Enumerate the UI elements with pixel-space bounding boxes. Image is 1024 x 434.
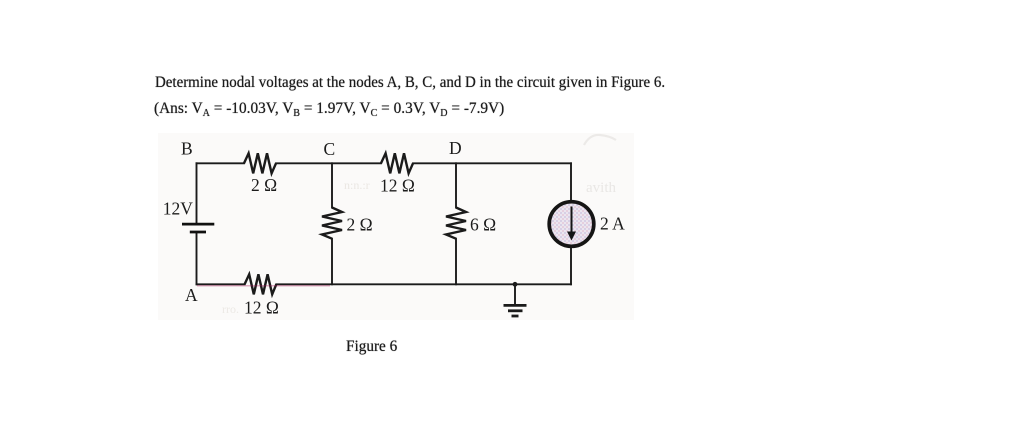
- svg-text:2 Ω: 2 Ω: [251, 175, 277, 195]
- wire top: B to C to D to right corner: [197, 162, 245, 164]
- resistor R5 12ohm (bottom, A side): [245, 274, 277, 294]
- svg-text:12 Ω: 12 Ω: [244, 298, 279, 318]
- wire left vertical B down to battery: [196, 163, 198, 222]
- resistor R4 6ohm (vertical under D): [446, 208, 466, 239]
- ground bar 2: [508, 309, 523, 312]
- svg-text:12V: 12V: [163, 199, 194, 219]
- svg-text:C: C: [324, 139, 336, 159]
- svg-text:avith: avith: [586, 180, 616, 196]
- resistor R1 2ohm (top left, B-C): [244, 153, 276, 173]
- scan color fringe on bottom wire: [197, 285, 330, 287]
- svg-text:6 Ω: 6 Ω: [470, 215, 496, 235]
- figure caption: [346, 339, 397, 355]
- svg-text:2 A: 2 A: [600, 213, 625, 233]
- wire left vertical battery down to A: [196, 233, 198, 284]
- faint scan artifact top right: [584, 135, 616, 145]
- wire right vertical to current source: [570, 163, 572, 200]
- svg-text:rro.: rro.: [222, 302, 239, 316]
- scanned image background: [158, 133, 634, 320]
- wire C vertical: [331, 163, 333, 207]
- svg-text:B: B: [181, 139, 193, 159]
- svg-text:n:n.:r: n:n.:r: [344, 178, 370, 192]
- ground bar 3: [512, 315, 519, 318]
- current source I1 arrow: [571, 207, 573, 234]
- svg-text:D: D: [449, 138, 462, 158]
- battery V1 12V long plate: [182, 223, 214, 226]
- wire bottom: A to ground to right corner: [197, 283, 245, 285]
- wire D vertical: [455, 163, 457, 207]
- answer text line 2: [154, 101, 504, 117]
- battery V1 12V short plate: [190, 231, 206, 234]
- resistor R2 12ohm (top right, C-D): [381, 153, 413, 173]
- junction node dot at ground: [513, 282, 518, 287]
- ground stem: [514, 284, 516, 304]
- ground bar 1: [504, 304, 527, 307]
- svg-text:2 Ω: 2 Ω: [347, 215, 373, 235]
- svg-text:A: A: [185, 285, 198, 305]
- svg-text:12 Ω: 12 Ω: [380, 176, 415, 196]
- current source I1 circle: [549, 202, 594, 247]
- resistor R3 2ohm (vertical under C): [322, 208, 342, 239]
- problem text line 1: [155, 75, 665, 91]
